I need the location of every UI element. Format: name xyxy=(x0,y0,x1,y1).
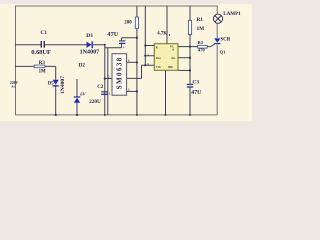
wire 555 left pin stubs xyxy=(145,46,154,56)
wire R1 C3 vertical xyxy=(189,6,191,115)
node C3 low xyxy=(189,69,191,71)
border top xyxy=(15,5,218,7)
wire D5 to bottom xyxy=(55,87,57,115)
node 555 left c xyxy=(144,64,146,66)
wire 200 resistor vertical xyxy=(136,6,138,115)
junction dots xyxy=(55,37,191,116)
wire 555 left feed xyxy=(144,6,146,65)
node U2 left pin xyxy=(104,77,106,79)
wire main drop xyxy=(104,45,106,115)
wire 555 gnd pin xyxy=(165,70,167,115)
capacitor C4 47U xyxy=(119,40,125,44)
svg-text:3D6: 3D6 xyxy=(168,66,173,69)
node bottom C3 xyxy=(189,114,191,116)
wire U2 right stub B xyxy=(127,90,137,92)
svg-text:Q1: Q1 xyxy=(220,50,227,55)
svg-text:+: + xyxy=(123,46,125,50)
wire C4 leads xyxy=(122,38,137,48)
resistor R1 xyxy=(188,21,191,35)
node main drop xyxy=(104,44,106,46)
paper background xyxy=(0,0,280,135)
pin labels U1 xyxy=(156,45,176,69)
border bottom xyxy=(15,114,217,116)
pin digits outside U1 xyxy=(148,34,171,66)
IC U2 SM0638 xyxy=(112,54,127,95)
capacitor C1 xyxy=(41,41,45,48)
wire 555 top pin xyxy=(166,6,168,44)
thyristor Q1 SCR xyxy=(214,38,220,44)
svg-text:470: 470 xyxy=(198,48,206,53)
node bottom zener xyxy=(76,114,78,116)
lamp LAMP1 xyxy=(213,14,222,23)
svg-text:D2: D2 xyxy=(79,63,86,69)
border right with lamp and SCR gaps xyxy=(216,6,218,115)
svg-text:47U: 47U xyxy=(107,31,118,38)
node stub B xyxy=(136,90,138,92)
wire 555 right stub low xyxy=(178,69,190,71)
svg-text:D1: D1 xyxy=(86,33,93,39)
diode D5 xyxy=(53,80,59,87)
wire main AC line xyxy=(15,44,105,46)
svg-text:2Ga: 2Ga xyxy=(156,57,161,60)
node bottom gnd xyxy=(165,114,167,116)
svg-text:1M: 1M xyxy=(197,26,205,32)
IC U1 555 xyxy=(154,44,178,71)
svg-text:C3: C3 xyxy=(192,79,199,85)
resistor R3 xyxy=(34,65,45,68)
node bottom main drop xyxy=(104,114,106,116)
border left xyxy=(15,6,17,115)
node stub A xyxy=(136,61,138,63)
svg-text:R: R xyxy=(156,46,158,49)
svg-text:C2: C2 xyxy=(97,85,104,90)
wire zener branch xyxy=(76,79,78,115)
wire second drop xyxy=(107,48,109,115)
node gate R1 xyxy=(189,46,191,48)
wire output to R2 and SCR gate xyxy=(178,44,215,46)
wire jog below main xyxy=(105,47,122,49)
svg-text:220U: 220U xyxy=(89,99,101,105)
node 555 left a xyxy=(144,44,146,46)
svg-text:R2: R2 xyxy=(198,40,203,45)
wire stair U2 to U1 xyxy=(127,65,155,78)
resistor 200 xyxy=(135,17,138,29)
svg-text:R1: R1 xyxy=(196,17,203,23)
node 555 left b xyxy=(144,55,146,57)
svg-text:SM0638: SM0638 xyxy=(116,56,124,89)
svg-text:R3: R3 xyxy=(39,61,46,66)
wire 555 right stub mid xyxy=(178,57,190,59)
zener D2 6V xyxy=(74,96,80,102)
svg-text:AC: AC xyxy=(11,85,16,89)
svg-text:1N4007: 1N4007 xyxy=(80,50,100,56)
svg-text:C1: C1 xyxy=(41,30,48,36)
svg-text:D5: D5 xyxy=(48,81,54,86)
svg-text:LAMP1: LAMP1 xyxy=(223,11,241,17)
node cap net xyxy=(136,37,138,39)
svg-text:0.68UF: 0.68UF xyxy=(31,49,51,56)
svg-text:4.7K: 4.7K xyxy=(157,32,167,37)
svg-text:200: 200 xyxy=(124,20,132,25)
capacitor C2 xyxy=(101,91,107,95)
svg-text:47U: 47U xyxy=(191,90,202,96)
svg-text:1M: 1M xyxy=(39,70,46,75)
resistor R2 xyxy=(198,45,208,48)
capacitor C3 xyxy=(187,84,193,88)
wire U2 right stub A xyxy=(127,61,137,63)
node bottom 200 xyxy=(136,114,138,116)
wire U2 left pin stub xyxy=(105,78,112,80)
diode D1 xyxy=(87,41,93,48)
svg-text:CVo: CVo xyxy=(156,66,162,69)
node bottom D5 xyxy=(55,114,57,116)
wire R3 branch xyxy=(15,66,56,79)
node C3 mid xyxy=(189,57,191,59)
svg-text:1N4007: 1N4007 xyxy=(60,76,66,94)
svg-text:SCR: SCR xyxy=(220,37,230,42)
